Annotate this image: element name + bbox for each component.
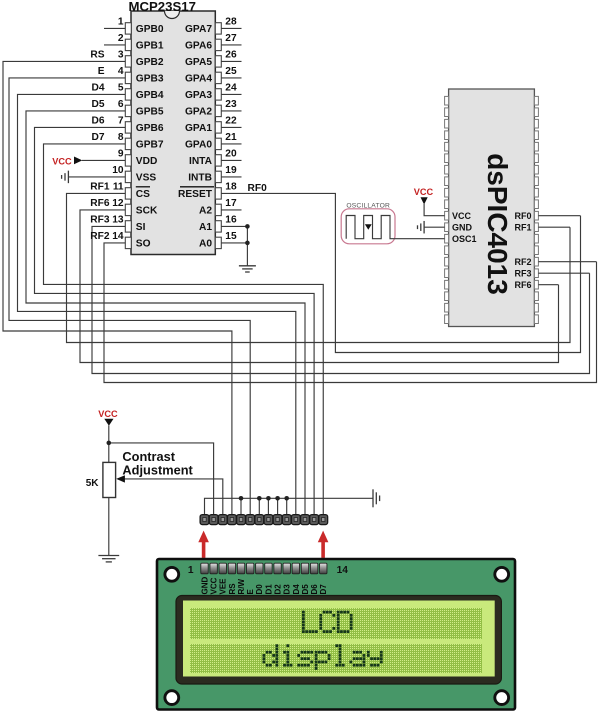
resistor R1 potentiometer 5K body [103,462,116,497]
svg-text:GPA6: GPA6 [185,41,212,52]
svg-text:RS: RS [90,49,104,60]
wire net D4 (MCP pin5 to LCD header pin11) [18,94,296,515]
svg-text:RF3: RF3 [90,214,110,225]
svg-text:1: 1 [188,565,194,576]
svg-text:VDD: VDD [136,156,158,167]
svg-text:18: 18 [225,182,237,193]
svg-text:RF2: RF2 [90,231,110,242]
svg-text:RS: RS [228,583,237,595]
svg-text:RESET: RESET [178,189,213,200]
svg-text:25: 25 [225,66,237,77]
IC U1 MCP23S17 body [131,11,215,255]
wire net RF6 (MCP pin12 SCK to dsPIC RF6) [80,210,559,363]
wire A1/A0 to ground [246,226,248,265]
LCD screen background [183,601,495,677]
wire pot bottom to ground [108,498,110,556]
svg-text:VCC: VCC [414,187,434,197]
svg-text:GPA3: GPA3 [185,90,212,101]
LCD pin pads 1-14 [201,563,208,574]
svg-text:RF6: RF6 [514,280,531,290]
IC U2 dsPIC4013 body [449,89,535,327]
wires header pins 5,7,8,9,10 to ground rail [240,498,242,515]
LCD bezel frame [176,596,501,685]
svg-text:14: 14 [112,231,124,242]
wire net RF2 (MCP pin14 SO to dsPIC RF2) [104,243,597,383]
svg-text:VCC: VCC [52,156,72,166]
svg-text:GPA5: GPA5 [185,57,212,68]
svg-text:VEE: VEE [219,578,228,595]
svg-text:24: 24 [225,83,237,94]
oscillator square-wave symbol [346,216,395,239]
wire dsPIC GND pin [424,226,445,228]
ground at header rail [372,489,374,507]
ground at potentiometer bottom [98,555,119,557]
ground at MCP VSS pin10 [67,171,69,184]
wire pot wiper to LCD header pin3 VEE [124,479,223,515]
svg-text:GPB3: GPB3 [136,74,164,85]
svg-text:27: 27 [225,33,237,44]
annotation red arrow at header pin14 [318,531,329,543]
svg-text:D5: D5 [91,99,104,110]
svg-text:INTA: INTA [189,156,213,167]
svg-text:GND: GND [200,577,209,595]
wire VCC to pot top [108,426,110,463]
svg-text:8: 8 [118,132,124,143]
svg-text:GPB7: GPB7 [136,140,164,151]
wire A1 pin16 [221,225,247,227]
svg-text:GPB5: GPB5 [136,107,164,118]
svg-text:E: E [246,589,255,595]
wire net RF1 (MCP pin11 CS to dsPIC RF1) [67,193,571,342]
svg-text:RF2: RF2 [514,257,531,267]
svg-text:VCC: VCC [210,577,219,594]
svg-text:GPA2: GPA2 [185,107,212,118]
svg-text:INTB: INTB [188,173,212,184]
svg-text:20: 20 [225,149,237,160]
svg-text:D7: D7 [91,132,104,143]
wire A0 pin15 [221,242,247,244]
svg-text:12: 12 [112,198,124,209]
svg-text:GPB6: GPB6 [136,123,164,134]
svg-text:GPA0: GPA0 [185,140,212,151]
svg-text:MCP23S17: MCP23S17 [129,0,196,14]
svg-text:10: 10 [112,165,124,176]
LCD mounting holes [165,567,179,581]
svg-text:15: 15 [225,231,237,242]
oscillator module box [341,209,395,244]
wire pin1 GPB0 stub [104,27,125,29]
svg-text:RF1: RF1 [90,181,110,192]
svg-text:D0: D0 [255,584,264,595]
svg-text:R/W: R/W [237,579,246,595]
svg-text:4: 4 [118,66,124,77]
wire dsPIC RF1 pin stub [538,226,570,228]
svg-text:16: 16 [225,215,237,226]
svg-text:5K: 5K [86,478,100,489]
wires GPA7-GPA0 INTA INTB A2 stub pins [221,27,241,29]
svg-text:RF0: RF0 [514,211,531,221]
wire net E (MCP pin4 to LCD header pin6) [9,78,250,515]
wire pot top to LCD header pin2 VCC [109,443,214,515]
svg-text:SCK: SCK [136,206,158,217]
svg-text:2: 2 [118,33,124,44]
svg-text:14: 14 [337,565,349,576]
wire dsPIC RF3 pin stub [538,272,589,274]
svg-text:7: 7 [118,116,124,127]
wire VSS pin10 to ground [68,176,125,178]
wire dsPIC RF6 pin stub [538,284,558,286]
svg-text:A2: A2 [199,206,212,217]
svg-text:D3: D3 [283,584,292,595]
LCD module PCB [157,559,515,710]
svg-text:D4: D4 [292,584,301,595]
wire dsPIC VCC pin [424,204,445,216]
svg-text:RF1: RF1 [514,223,531,233]
wire net D5 (MCP pin6 to LCD header pin12) [26,111,305,515]
wire net D6 (MCP pin7 to LCD header pin13) [35,127,315,515]
svg-text:VCC: VCC [98,409,118,419]
svg-text:RF0: RF0 [248,183,268,194]
svg-text:dsPIC4013: dsPIC4013 [482,153,513,295]
svg-text:VSS: VSS [136,173,157,184]
ground at dsPIC GND [423,221,425,234]
svg-text:D4: D4 [91,82,104,93]
connector J1 14-pin header [200,515,209,525]
svg-text:23: 23 [225,99,237,110]
wire net RS (MCP pin3 to LCD header pin4) [3,61,232,515]
svg-text:GPB0: GPB0 [136,24,164,35]
svg-text:GPB4: GPB4 [136,90,164,101]
wire dsPIC RF0 pin stub [538,215,580,217]
svg-text:11: 11 [113,182,124,193]
svg-text:Adjustment: Adjustment [122,463,193,478]
wire VDD pin9 to VCC [82,159,125,161]
IC U2 pin boxes (40-pin DIP) [445,96,449,105]
svg-text:VCC: VCC [452,211,472,221]
svg-text:9: 9 [118,149,124,160]
wire net D7 (MCP pin8 to LCD header pin14) [44,144,324,515]
svg-text:1: 1 [118,17,124,28]
svg-text:28: 28 [225,17,237,28]
wire LCD header pin1 GND to ground rail [205,498,374,515]
wire dsPIC RF2 pin stub [538,261,596,263]
svg-text:OSC1: OSC1 [452,234,477,244]
junctions on ground rail [239,496,244,501]
svg-text:GND: GND [452,223,473,233]
wire pin2 GPB1 stub [104,44,125,46]
svg-text:RF6: RF6 [90,198,110,209]
svg-text:A1: A1 [199,222,212,233]
junction at pot top [107,441,112,446]
junction at A0 [245,241,250,246]
svg-text:22: 22 [225,116,237,127]
svg-text:D2: D2 [273,584,282,595]
svg-text:17: 17 [225,198,237,209]
svg-text:6: 6 [118,99,124,110]
svg-text:A0: A0 [199,239,212,250]
svg-text:SO: SO [136,239,151,250]
svg-text:D6: D6 [310,584,319,595]
svg-text:21: 21 [225,132,237,143]
wire net RF3 (MCP pin13 SI to dsPIC RF3) [92,226,590,373]
svg-text:3: 3 [118,50,124,61]
svg-text:19: 19 [225,165,237,176]
svg-text:RF3: RF3 [514,269,531,279]
IC U1 pin boxes (DIP-28) [125,23,131,34]
svg-text:5: 5 [118,83,124,94]
svg-text:GPA4: GPA4 [185,74,212,85]
junction at A1 [245,224,250,229]
svg-text:E: E [98,66,105,77]
LCD character row band 2 [190,644,482,673]
svg-text:GPB1: GPB1 [136,41,164,52]
LCD text LCD (row 1) [302,611,305,614]
LCD text display (row 2) [276,644,279,647]
wire net RF0 (MCP pin18 RESET to dsPIC RF0) [221,193,580,352]
svg-text:CS: CS [136,189,150,200]
svg-text:GPA1: GPA1 [185,123,212,134]
svg-text:D1: D1 [264,584,273,595]
LCD character row band 1 [190,608,482,639]
svg-text:26: 26 [225,50,237,61]
wire oscillator output to dsPIC OSC1 [395,238,445,240]
ground at MCP A0/A1 [239,265,256,267]
svg-text:D6: D6 [91,115,104,126]
svg-text:D5: D5 [301,584,310,595]
svg-text:13: 13 [112,215,124,226]
annotation red arrow at header pin1 [198,531,209,543]
svg-text:GPB2: GPB2 [136,57,164,68]
svg-text:D7: D7 [319,584,328,595]
svg-text:GPA7: GPA7 [185,24,212,35]
svg-text:SI: SI [136,222,146,233]
